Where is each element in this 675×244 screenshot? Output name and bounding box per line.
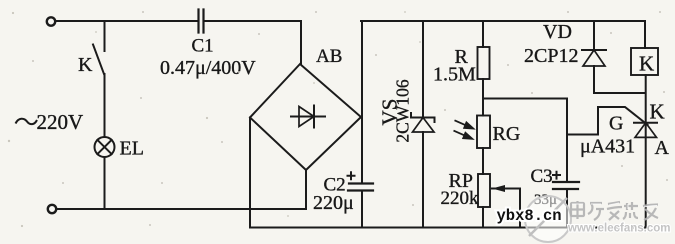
svg-text:RG: RG xyxy=(493,123,521,145)
svg-text:G: G xyxy=(609,113,623,135)
svg-text:2CP12: 2CP12 xyxy=(524,45,578,67)
svg-text:VD: VD xyxy=(543,21,572,43)
svg-text:www.elecfans.com: www.elecfans.com xyxy=(567,223,670,235)
svg-text:K: K xyxy=(650,100,665,124)
svg-text:220k: 220k xyxy=(441,188,480,209)
svg-text:1.5M: 1.5M xyxy=(433,64,476,86)
svg-text:C1: C1 xyxy=(192,36,214,57)
svg-text:220V: 220V xyxy=(37,110,84,134)
svg-text:μA431: μA431 xyxy=(580,136,635,158)
svg-text:K: K xyxy=(78,54,93,76)
svg-text:C3: C3 xyxy=(531,166,553,187)
svg-text:K: K xyxy=(639,52,654,76)
svg-text:0.47μ/400V: 0.47μ/400V xyxy=(160,57,256,79)
svg-text:AB: AB xyxy=(316,46,342,67)
svg-text:ybx8.cn: ybx8.cn xyxy=(497,207,562,225)
svg-text:2CW106: 2CW106 xyxy=(393,79,413,142)
svg-text:A: A xyxy=(655,137,670,159)
svg-text:220μ: 220μ xyxy=(313,192,354,214)
svg-text:EL: EL xyxy=(120,138,144,160)
